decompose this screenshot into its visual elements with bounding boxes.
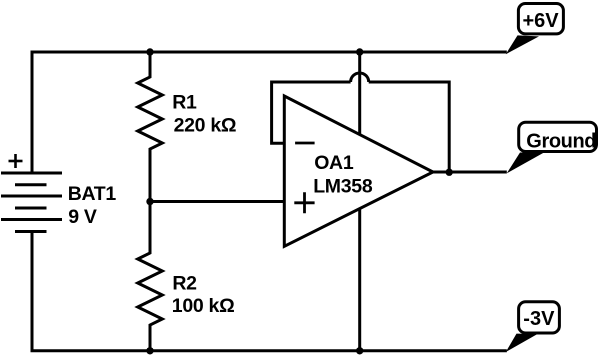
svg-text:+6V: +6V bbox=[523, 10, 560, 32]
svg-text:OA1: OA1 bbox=[314, 152, 354, 174]
svg-text:LM358: LM358 bbox=[313, 175, 373, 197]
svg-text:BAT1: BAT1 bbox=[68, 183, 117, 205]
svg-text:220 kΩ: 220 kΩ bbox=[174, 115, 237, 137]
svg-text:Ground: Ground bbox=[526, 130, 596, 152]
svg-text:100 kΩ: 100 kΩ bbox=[172, 295, 235, 317]
svg-text:R1: R1 bbox=[172, 91, 197, 113]
svg-text:-3V: -3V bbox=[523, 308, 555, 330]
svg-text:9 V: 9 V bbox=[68, 206, 97, 228]
svg-text:R2: R2 bbox=[172, 273, 197, 295]
